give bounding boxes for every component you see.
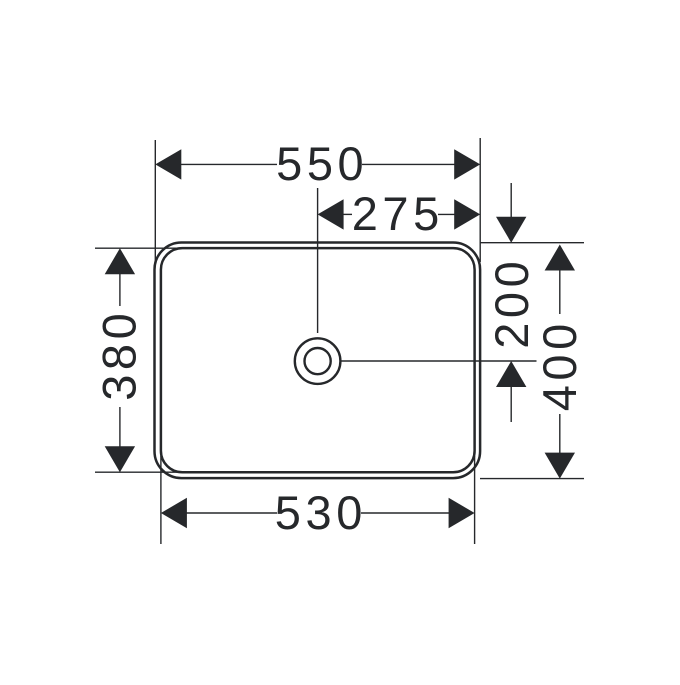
extension line right (550/275) (479, 138, 481, 262)
dimension 530 right arrow (449, 498, 475, 528)
svg-text:400: 400 (533, 319, 586, 411)
dimension 550 label (276, 137, 368, 190)
drain hole inner circle (305, 348, 331, 374)
dimension 380 bottom arrow (105, 446, 135, 472)
centre line right (200) (342, 360, 537, 362)
extension line bottom-right (530) (474, 456, 476, 544)
dimension 530 line (184, 512, 451, 514)
extension line bottom-left (530) (160, 456, 162, 544)
extension line inner-bottom left (380) (95, 471, 184, 473)
dimension 200 label (485, 257, 538, 349)
extension line inner-top left (380) (95, 247, 184, 249)
extension line top-right (200/400) (480, 242, 584, 244)
extension line left (550) (154, 140, 156, 262)
dimension 550 left arrow (155, 149, 181, 179)
svg-text:380: 380 (93, 309, 146, 401)
basin outer rim (155, 243, 481, 479)
dimension 400 top arrow (545, 245, 575, 271)
dimension 200 bottom arrow (496, 361, 526, 387)
dimension 275 label (352, 187, 444, 240)
dimension 550 right arrow (454, 149, 480, 179)
dimension 200 leader bottom (510, 385, 512, 422)
svg-text:530: 530 (275, 486, 367, 539)
dimension 530 left arrow (161, 498, 187, 528)
dimension 380 label (93, 309, 146, 401)
svg-text:275: 275 (352, 187, 444, 240)
extension line bottom-right (400) (480, 478, 584, 480)
extension line centre vertical (275) (317, 188, 319, 333)
dimension 275 right arrow (454, 199, 480, 229)
svg-text:550: 550 (276, 137, 368, 190)
dimension 400 line (559, 268, 561, 457)
dimension 200 leader top (510, 183, 512, 220)
dimension 530 label (275, 486, 367, 539)
basin inner rim (161, 248, 475, 472)
dimension 400 bottom arrow (545, 453, 575, 479)
dimension 275 left arrow (318, 199, 344, 229)
dimension 380 top arrow (105, 248, 135, 274)
dimension 550 line (178, 163, 457, 165)
drain hole outer circle (295, 338, 341, 384)
dimension 380 line (119, 274, 121, 447)
dimension 400 label (533, 319, 586, 411)
svg-text:200: 200 (485, 257, 538, 349)
dimension 200 top arrow (496, 217, 526, 243)
dimension 275 line (341, 213, 456, 215)
